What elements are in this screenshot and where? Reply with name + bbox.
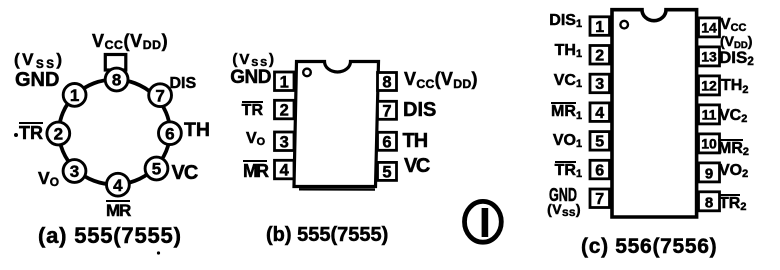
svg-text:7: 7 — [382, 102, 391, 120]
svg-text:14: 14 — [701, 20, 717, 36]
svg-text:3: 3 — [70, 162, 79, 181]
svg-text:12: 12 — [701, 78, 717, 94]
svg-text:6: 6 — [595, 162, 604, 179]
svg-text:4: 4 — [113, 176, 123, 195]
svg-text:13: 13 — [701, 49, 717, 65]
svg-text:8: 8 — [705, 194, 713, 211]
svg-text:10: 10 — [701, 136, 717, 152]
svg-text:5: 5 — [595, 134, 604, 151]
svg-text:1: 1 — [70, 86, 79, 105]
svg-text:8: 8 — [112, 71, 121, 90]
svg-text:6: 6 — [165, 124, 174, 143]
svg-text:9: 9 — [705, 165, 713, 182]
svg-text:3: 3 — [595, 76, 604, 93]
svg-text:6: 6 — [382, 133, 391, 151]
svg-text:7: 7 — [595, 191, 604, 208]
svg-text:2: 2 — [595, 48, 604, 65]
svg-text:1: 1 — [595, 19, 604, 36]
svg-text:2: 2 — [54, 125, 63, 144]
svg-text:4: 4 — [595, 105, 604, 122]
svg-text:4: 4 — [280, 162, 290, 180]
svg-text:3: 3 — [280, 133, 289, 151]
svg-text:5: 5 — [382, 163, 391, 181]
svg-text:2: 2 — [280, 102, 289, 120]
svg-text:1: 1 — [280, 73, 289, 91]
svg-text:8: 8 — [382, 74, 391, 92]
svg-text:11: 11 — [702, 107, 717, 123]
